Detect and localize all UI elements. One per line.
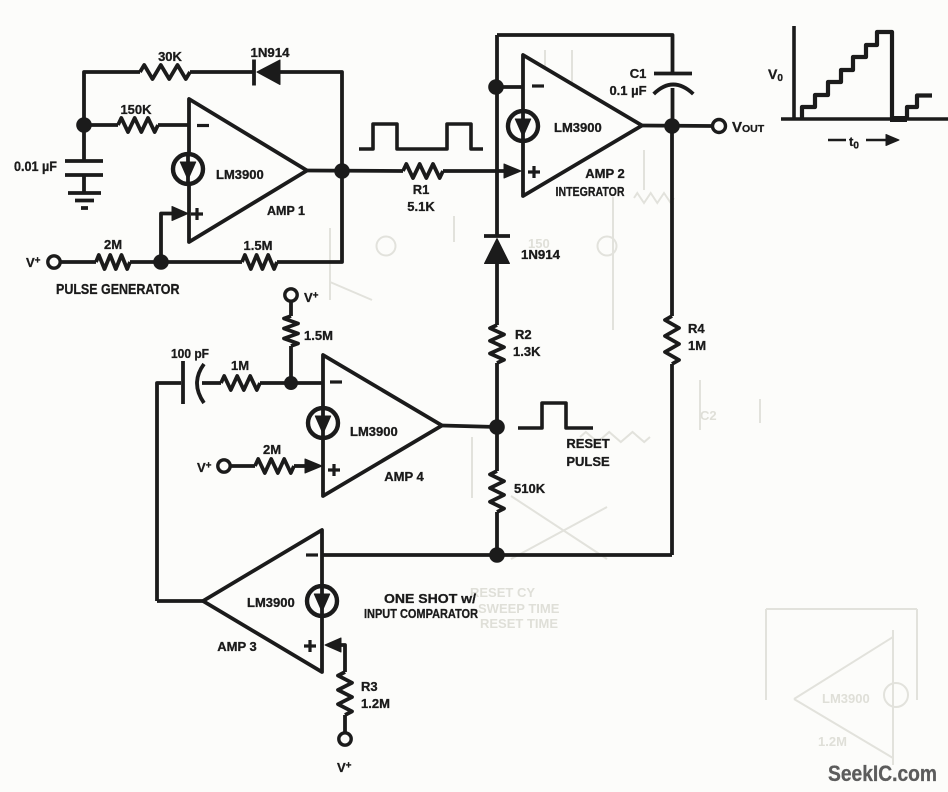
svg-text:SeekIC.com: SeekIC.com <box>828 761 937 786</box>
svg-text:LM3900: LM3900 <box>554 120 602 135</box>
svg-text:VOUT: VOUT <box>732 119 765 136</box>
svg-text:0.01 µF: 0.01 µF <box>14 159 57 174</box>
svg-text:V+: V+ <box>26 255 41 270</box>
svg-text:LM3900: LM3900 <box>247 595 295 610</box>
svg-text:LM3900: LM3900 <box>822 691 870 706</box>
svg-text:5.1K: 5.1K <box>407 199 435 214</box>
svg-text:SWEEP TIME: SWEEP TIME <box>478 601 560 616</box>
svg-text:R1: R1 <box>413 182 430 197</box>
svg-text:AMP 1: AMP 1 <box>267 204 305 218</box>
svg-text:LM3900: LM3900 <box>216 167 264 182</box>
svg-text:V+: V+ <box>197 460 212 475</box>
svg-text:R3: R3 <box>361 679 378 694</box>
svg-text:0.1 µF: 0.1 µF <box>609 83 646 98</box>
svg-text:RESET CY: RESET CY <box>470 585 535 600</box>
svg-text:RESET: RESET <box>566 436 609 451</box>
svg-text:R4: R4 <box>688 321 705 336</box>
svg-text:RESET TIME: RESET TIME <box>480 616 558 631</box>
svg-text:V+: V+ <box>337 760 352 775</box>
svg-text:C1: C1 <box>630 66 647 81</box>
svg-text:PULSE GENERATOR: PULSE GENERATOR <box>56 282 180 298</box>
svg-text:1N914: 1N914 <box>251 45 291 60</box>
svg-text:1.2M: 1.2M <box>818 734 847 749</box>
svg-text:100 pF: 100 pF <box>171 346 209 361</box>
svg-text:INTEGRATOR: INTEGRATOR <box>556 185 625 199</box>
svg-text:1.3K: 1.3K <box>513 344 541 359</box>
svg-text:V0: V0 <box>768 66 783 84</box>
svg-text:C2: C2 <box>700 408 717 423</box>
svg-text:ONE SHOT w/: ONE SHOT w/ <box>384 591 476 606</box>
svg-text:PULSE: PULSE <box>566 454 610 469</box>
svg-text:1M: 1M <box>688 338 706 353</box>
svg-text:1M: 1M <box>231 358 249 373</box>
svg-text:LM3900: LM3900 <box>350 424 398 439</box>
svg-text:AMP 2: AMP 2 <box>585 166 625 181</box>
svg-text:150K: 150K <box>120 102 152 117</box>
svg-text:V+: V+ <box>304 290 319 305</box>
svg-text:510K: 510K <box>514 481 546 496</box>
svg-text:AMP 4: AMP 4 <box>384 469 424 484</box>
svg-text:AMP 3: AMP 3 <box>217 639 257 654</box>
svg-text:1.2M: 1.2M <box>361 696 390 711</box>
svg-text:1N914: 1N914 <box>521 247 561 262</box>
svg-text:30K: 30K <box>158 49 182 64</box>
svg-text:1.5M: 1.5M <box>304 328 333 343</box>
svg-text:R2: R2 <box>515 327 532 342</box>
svg-text:1.5M: 1.5M <box>244 238 273 253</box>
svg-text:2M: 2M <box>263 442 281 457</box>
svg-text:2M: 2M <box>104 237 122 252</box>
svg-text:INPUT COMPARATOR: INPUT COMPARATOR <box>364 606 479 621</box>
svg-text:t0: t0 <box>849 134 859 152</box>
